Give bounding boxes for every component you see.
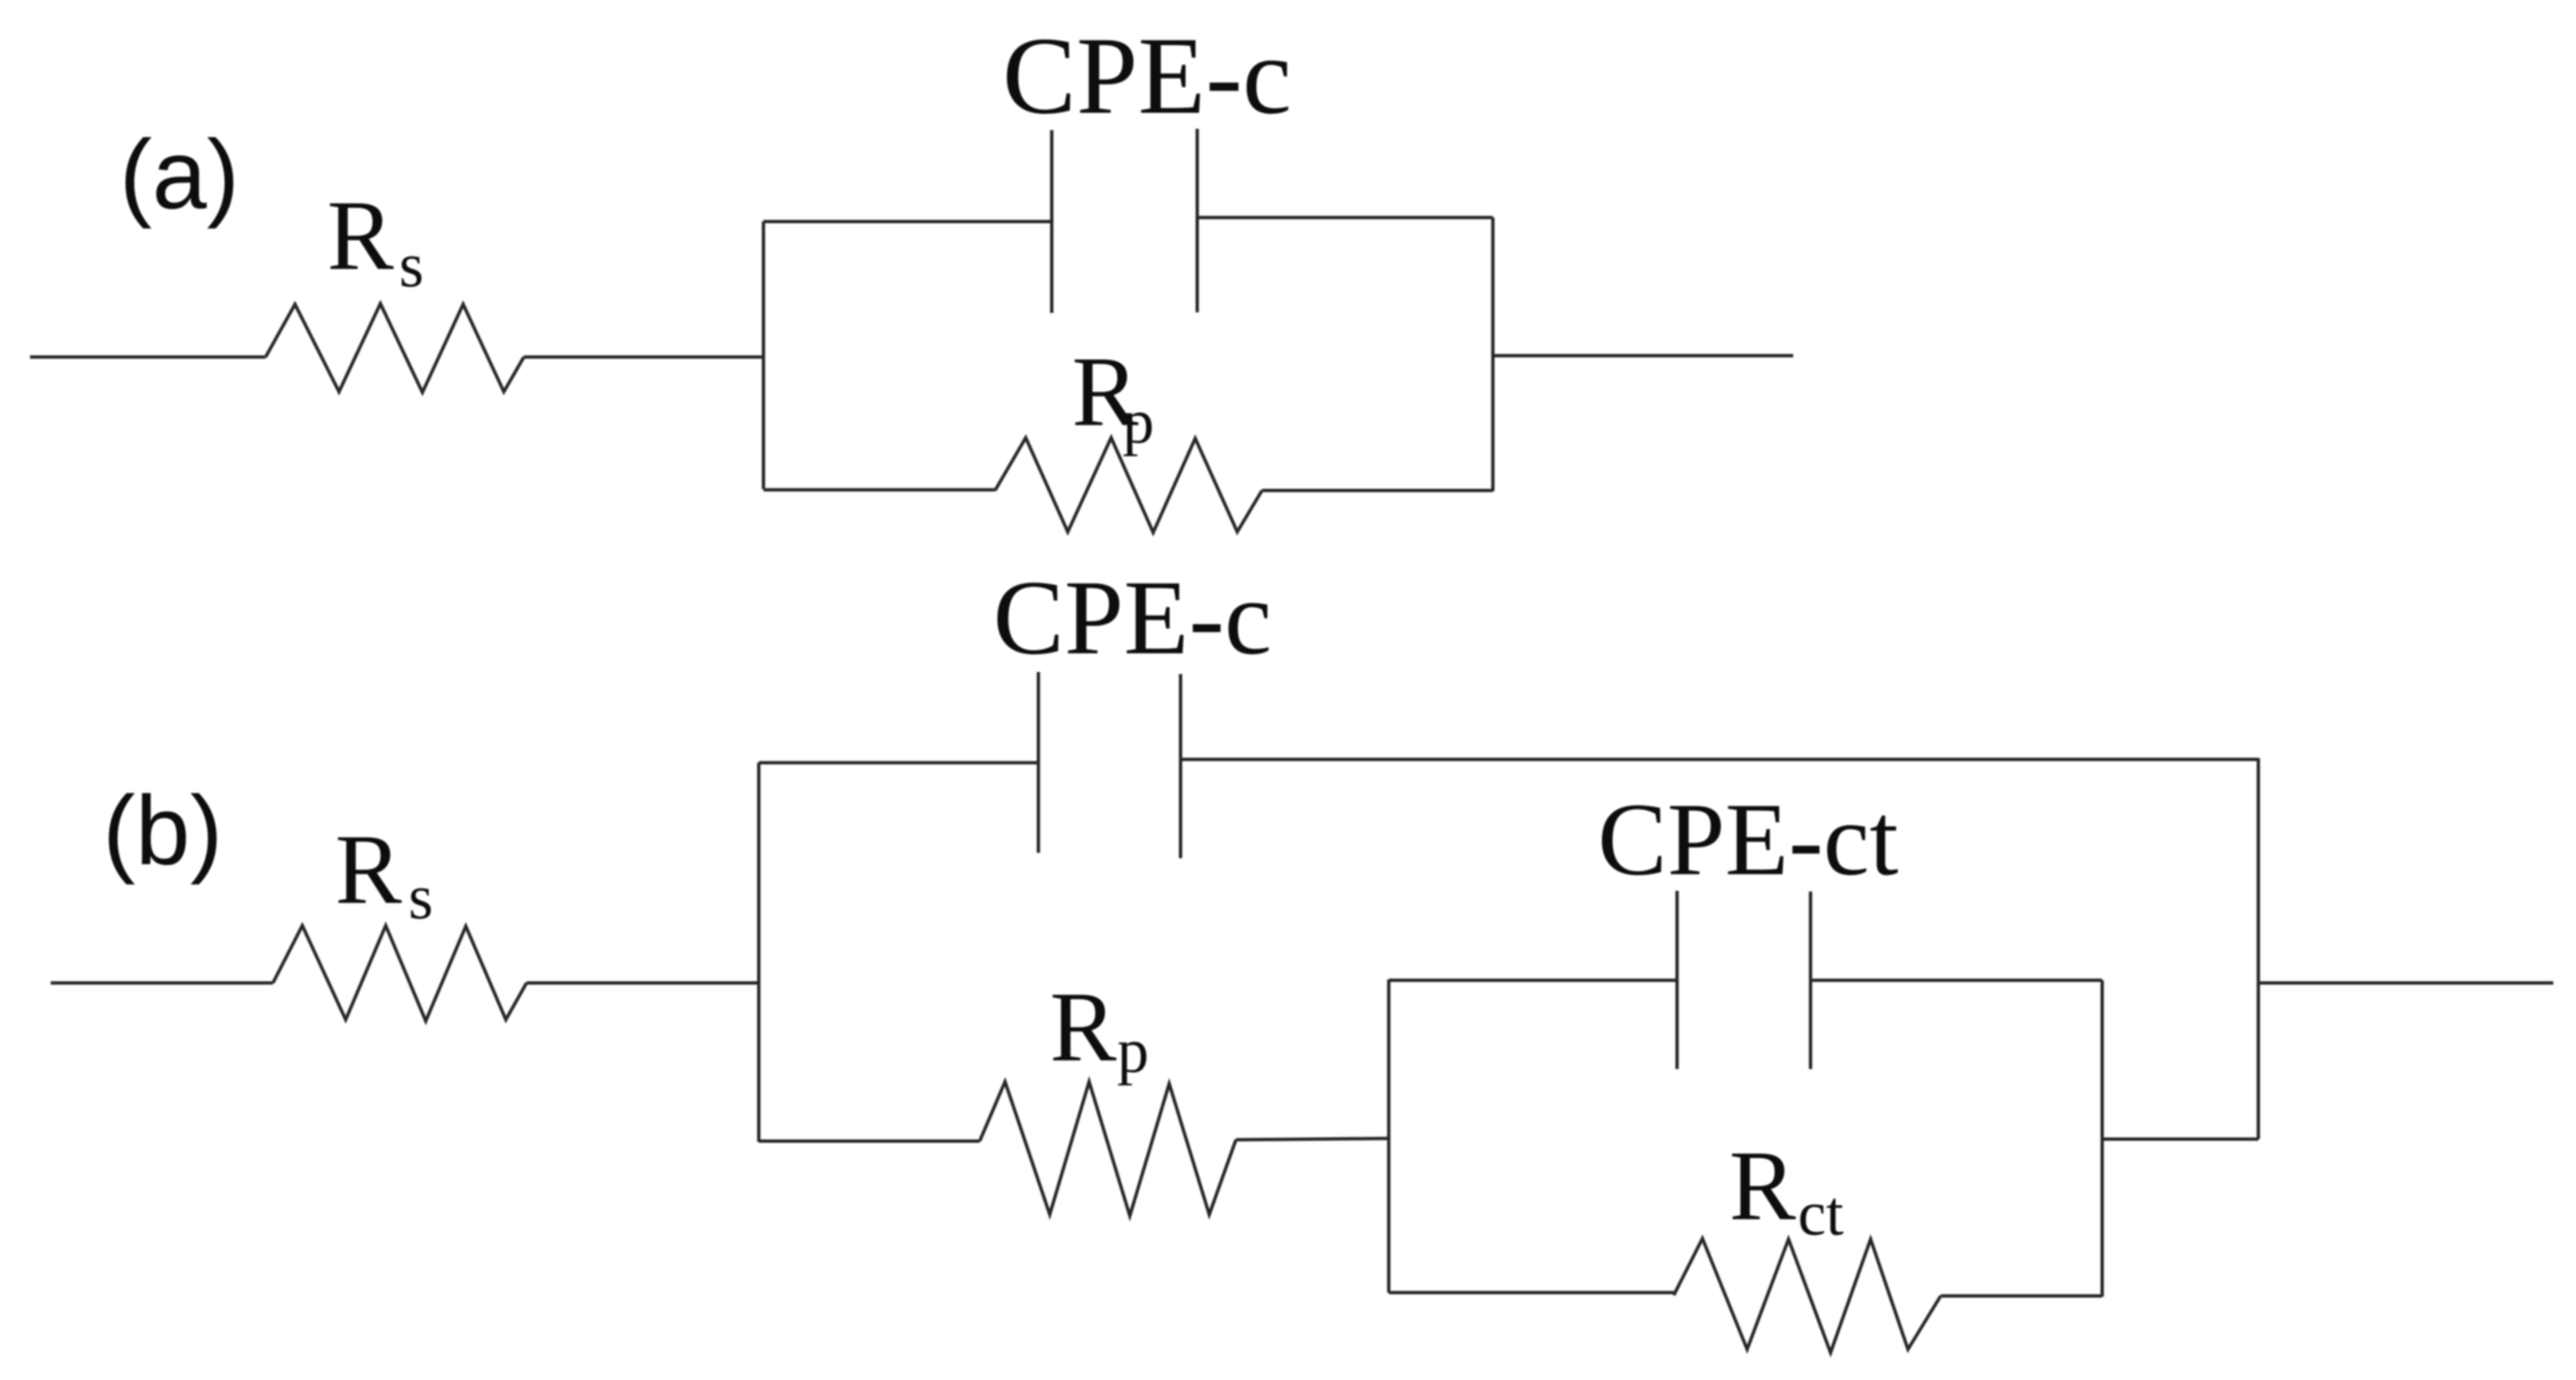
svg-text:p: p bbox=[1122, 386, 1155, 456]
wire b-box1-top-right-long bbox=[1181, 758, 2258, 761]
wire a-exit bbox=[1493, 354, 1793, 358]
svg-text:ct: ct bbox=[1798, 1178, 1844, 1249]
wire a-box-bottom-right bbox=[1262, 489, 1493, 492]
wire b-box1-bottom-right bbox=[1236, 1138, 1389, 1140]
svg-text:(a): (a) bbox=[119, 120, 240, 230]
svg-text:(b): (b) bbox=[103, 776, 223, 886]
wire b-entry bbox=[51, 982, 273, 985]
capacitor CPE-c (circuit a) bbox=[1002, 14, 1291, 313]
wire b-box2-bottom-right bbox=[1941, 1295, 2102, 1298]
resistor Rp (circuit a) bbox=[995, 336, 1262, 533]
wire a-box-top-left bbox=[763, 220, 1052, 224]
label (b) bbox=[103, 776, 223, 886]
resistor Rct (circuit b) bbox=[1674, 1130, 1941, 1353]
svg-text:CPE-c: CPE-c bbox=[993, 558, 1272, 677]
svg-text:p: p bbox=[1117, 1015, 1149, 1086]
wire b-box1-top-left bbox=[759, 761, 1038, 765]
wire a-box-left-vertical bbox=[762, 222, 765, 489]
svg-text:R: R bbox=[1050, 972, 1116, 1082]
wire b-link-mid bbox=[2102, 1138, 2258, 1141]
svg-text:R: R bbox=[327, 180, 394, 291]
wire a-box-bottom-left bbox=[763, 488, 995, 492]
svg-text:CPE-c: CPE-c bbox=[1002, 14, 1291, 137]
resistor Rp (circuit b) bbox=[980, 972, 1236, 1216]
label (a) bbox=[119, 120, 240, 230]
wire b-box2-top-right bbox=[1811, 979, 2102, 982]
resistor Rs (circuit a) bbox=[266, 180, 524, 392]
wire b-box2-top-left bbox=[1389, 979, 1677, 982]
wire b-box1-bottom-left bbox=[759, 1140, 980, 1143]
wire b-outer-right-vertical bbox=[2257, 758, 2260, 1139]
svg-text:s: s bbox=[399, 230, 424, 300]
resistor Rs (circuit b) bbox=[273, 814, 527, 1021]
wire b-exit bbox=[2258, 982, 2553, 985]
wire b-box2-bottom-left bbox=[1389, 1291, 1674, 1295]
wire b-box2-left-vertical bbox=[1387, 980, 1391, 1293]
capacitor CPE-c (circuit b) bbox=[993, 558, 1272, 858]
wire a-box-right-vertical bbox=[1492, 218, 1495, 491]
wire b-box2-right-vertical bbox=[2101, 980, 2104, 1297]
svg-text:CPE-ct: CPE-ct bbox=[1598, 781, 1899, 897]
wire b-mid bbox=[527, 982, 759, 985]
capacitor CPE-ct (circuit b) bbox=[1598, 781, 1899, 1069]
svg-text:R: R bbox=[335, 814, 402, 925]
wire b-box1-left-vertical bbox=[757, 763, 761, 1142]
svg-text:s: s bbox=[408, 861, 433, 932]
svg-text:R: R bbox=[1729, 1130, 1796, 1241]
wire a-mid bbox=[524, 356, 763, 359]
wire a-box-top-right bbox=[1197, 216, 1493, 220]
wire a-entry bbox=[30, 356, 266, 359]
